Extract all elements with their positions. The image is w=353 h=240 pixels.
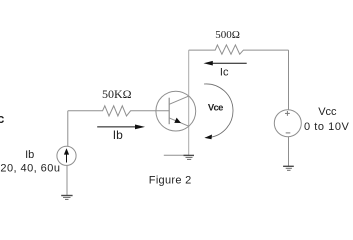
svg-text:20, 40, 60u: 20, 40, 60u: [0, 162, 60, 174]
svg-text:0 to 10V: 0 to 10V: [304, 121, 349, 133]
svg-text:Ib: Ib: [25, 149, 34, 161]
svg-text:Vce: Vce: [208, 102, 223, 113]
svg-text:Vcc: Vcc: [318, 106, 337, 118]
svg-text:c: c: [0, 111, 4, 126]
svg-text:500Ω: 500Ω: [215, 29, 240, 41]
svg-text:Figure 2: Figure 2: [149, 174, 192, 186]
svg-text:50KΩ: 50KΩ: [102, 87, 132, 101]
svg-text:Ic: Ic: [220, 67, 229, 79]
svg-text:Ib: Ib: [113, 128, 123, 142]
